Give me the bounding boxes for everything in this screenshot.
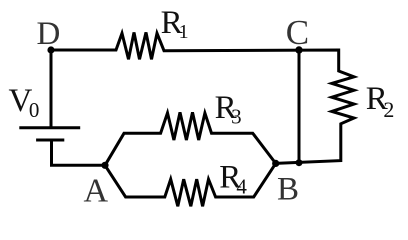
- svg-text:D: D: [37, 16, 61, 52]
- svg-text:B: B: [277, 171, 299, 207]
- svg-text:A: A: [84, 173, 109, 210]
- svg-text:C: C: [286, 13, 309, 52]
